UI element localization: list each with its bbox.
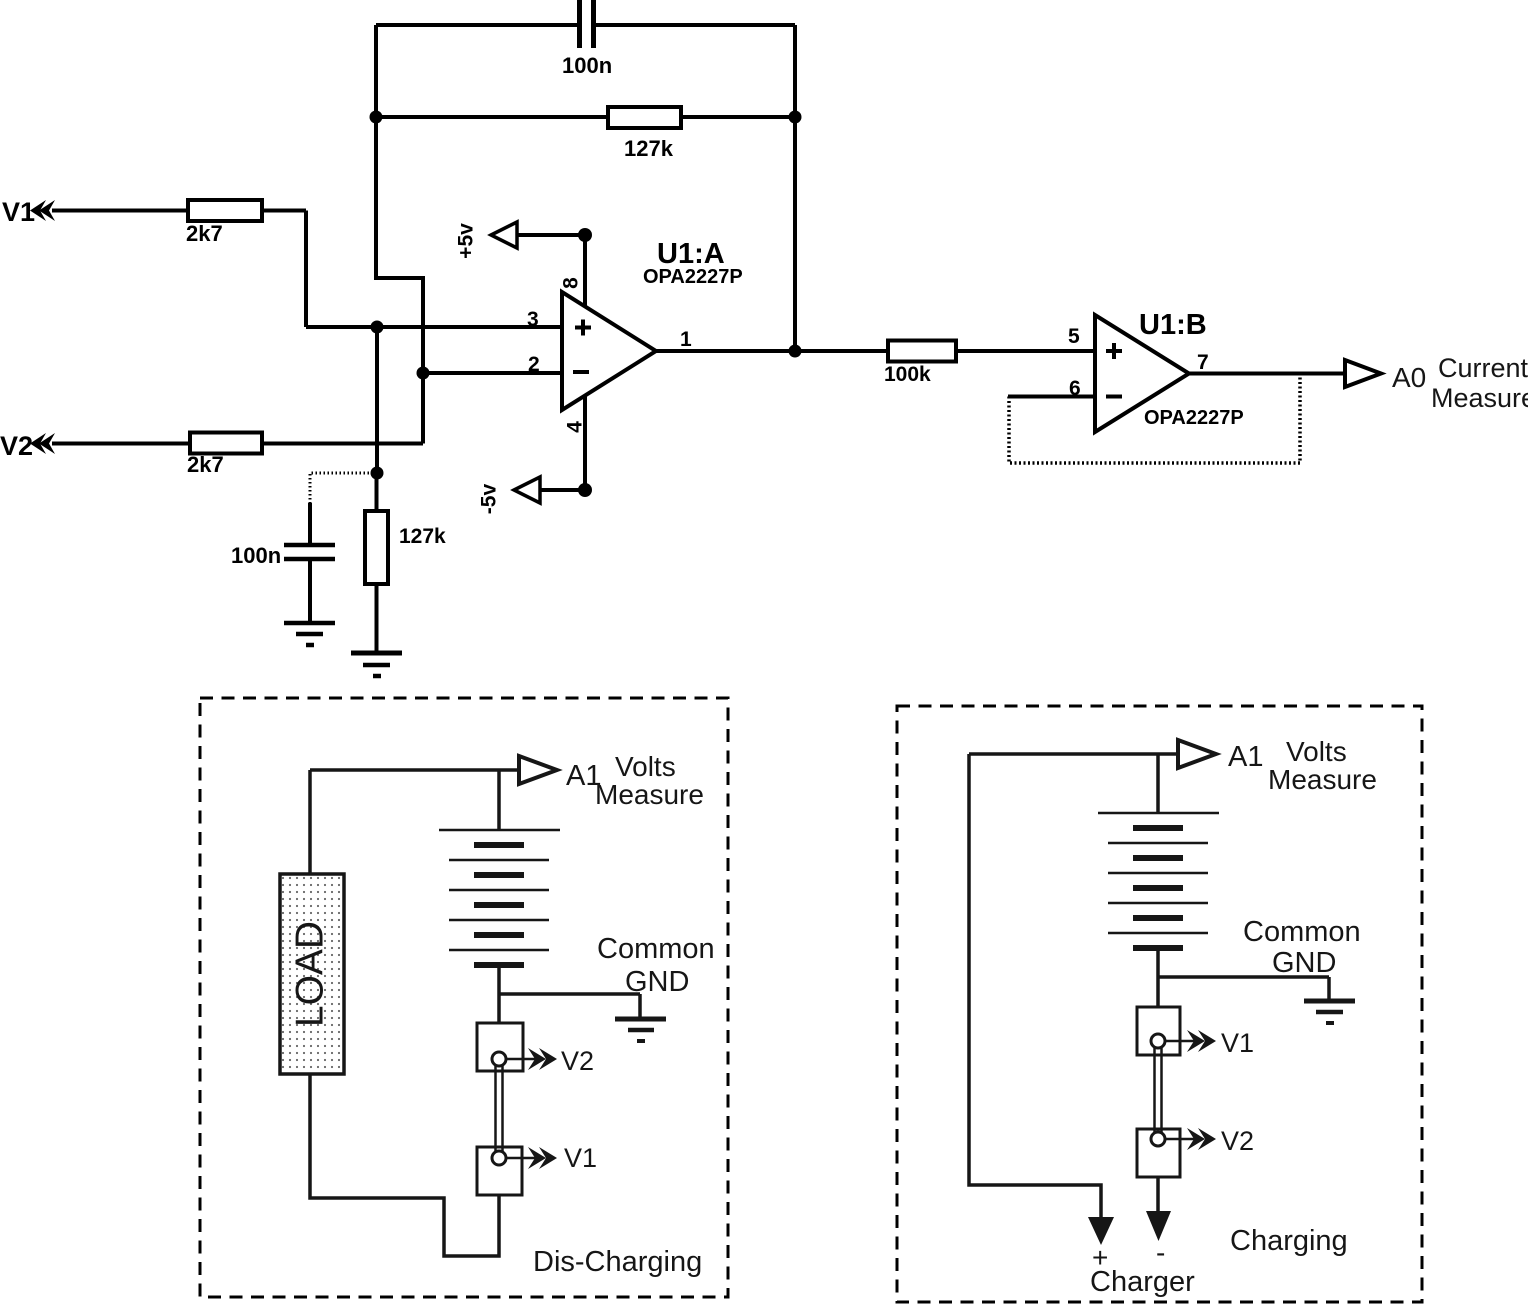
svg-text:8: 8 [560,277,583,289]
svg-text:6: 6 [1069,377,1081,400]
svg-text:OPA2227P: OPA2227P [643,266,743,288]
svg-text:5: 5 [1068,325,1080,348]
svg-text:V2: V2 [561,1046,594,1076]
svg-text:-5v: -5v [478,484,501,515]
svg-text:Volts: Volts [1286,736,1347,767]
svg-text:Measure: Measure [1431,383,1528,413]
svg-text:LOAD: LOAD [288,921,331,1027]
svg-text:OPA2227P: OPA2227P [1144,407,1244,429]
svg-text:V1: V1 [2,197,35,227]
svg-text:Measure: Measure [1268,764,1377,795]
svg-text:GND: GND [625,966,689,998]
svg-text:Dis-Charging: Dis-Charging [533,1246,702,1278]
svg-text:-: - [1156,1237,1165,1268]
svg-text:V2: V2 [0,431,33,461]
svg-text:V1: V1 [1221,1028,1254,1058]
svg-text:4: 4 [564,421,587,433]
svg-text:V2: V2 [1221,1126,1254,1156]
svg-text:V1: V1 [564,1143,597,1173]
svg-text:GND: GND [1272,947,1336,979]
svg-text:127k: 127k [399,525,446,548]
svg-text:Volts: Volts [615,751,676,782]
svg-text:A0: A0 [1392,362,1426,393]
svg-text:+5v: +5v [455,223,478,259]
svg-text:Current: Current [1438,353,1528,383]
svg-text:100k: 100k [884,363,931,386]
svg-text:1: 1 [680,328,692,351]
svg-text:2k7: 2k7 [186,221,223,246]
svg-text:Charger: Charger [1090,1266,1195,1298]
svg-text:U1:B: U1:B [1139,309,1207,341]
svg-text:100n: 100n [562,53,612,78]
svg-text:127k: 127k [624,136,674,161]
svg-text:3: 3 [527,308,539,331]
svg-text:Measure: Measure [595,779,704,810]
svg-text:7: 7 [1197,351,1209,374]
svg-text:Charging: Charging [1230,1225,1348,1257]
svg-text:100n: 100n [231,543,281,568]
svg-text:Common: Common [597,933,715,965]
svg-text:Common: Common [1243,916,1361,948]
svg-text:A1: A1 [1228,741,1263,773]
svg-text:2: 2 [528,353,540,376]
svg-text:2k7: 2k7 [187,452,224,477]
